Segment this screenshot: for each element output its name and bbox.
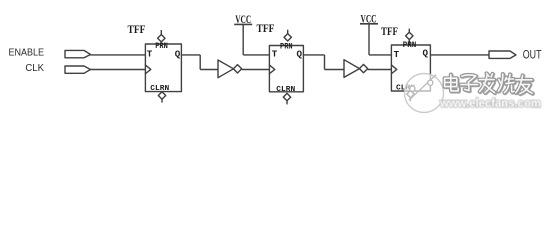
svg-text:CLK: CLK (25, 63, 44, 74)
power VCC bar (234, 23, 252, 25)
U5 CLRN stub (410, 98, 412, 101)
svg-text:www.elecfans.com: www.elecfans.com (439, 96, 541, 110)
svg-text:TFF: TFF (381, 24, 398, 38)
power VCC bar (360, 23, 378, 25)
svg-text:ENABLE: ENABLE (9, 48, 45, 59)
wire Q of U3 (303, 54, 325, 56)
T flip-flop U5 body (391, 45, 430, 91)
wire CLK to clock of U1 (91, 69, 146, 71)
svg-text:TFF: TFF (257, 21, 275, 35)
U5 PRN diamond (406, 32, 413, 39)
inverter U4 triangle (344, 60, 360, 78)
output pin OUT (489, 51, 516, 58)
U3 CLRN diamond (283, 93, 290, 100)
U1 clock triangle (145, 65, 151, 74)
U5 PRN lower stub (408, 40, 410, 45)
U5 PRN stub (408, 29, 410, 33)
svg-text:PRN: PRN (155, 41, 168, 51)
inverter U4 bubble (359, 64, 367, 72)
U3 PRN diamond (284, 34, 291, 41)
wire vertical jog to inverter U2 (199, 55, 201, 70)
wire vertical jog to inverter U4 (324, 55, 326, 70)
wire U2 out to clock of U3 (242, 69, 269, 71)
inverter U2 triangle (218, 60, 234, 78)
watermark logo ring 2 (428, 80, 433, 85)
U5 clock triangle (391, 65, 397, 74)
watermark chinese text dian zi fa shao you (445, 73, 533, 94)
svg-text:CLRN: CLRN (150, 85, 169, 93)
U5 CLRN diamond (407, 90, 414, 97)
U3 CLRN stub (286, 101, 288, 104)
wire Q of U1 (181, 54, 200, 56)
inverter U2 bubble (233, 65, 241, 73)
svg-text:Q: Q (422, 47, 428, 58)
T flip-flop U3 body (269, 46, 303, 92)
wire U4 out to clock of U5 (368, 69, 391, 71)
wire Q of U5 to OUT (430, 54, 489, 56)
svg-text:OUT: OUT (523, 48, 542, 61)
U3 PRN stub (287, 30, 289, 34)
input pin ENABLE (65, 50, 91, 57)
T flip-flop U1 body (145, 44, 181, 92)
svg-text:T: T (147, 48, 153, 59)
U1 CLRN stub (161, 99, 163, 102)
svg-text:TFF: TFF (128, 22, 146, 36)
wire VCC to T of U5 (369, 54, 391, 56)
U1 PRN stub (160, 30, 162, 34)
svg-text:Q: Q (296, 49, 302, 60)
svg-text:CLRN: CLRN (276, 86, 295, 94)
U3 clock triangle (269, 65, 275, 74)
wire ENABLE to T of U1 (91, 54, 146, 56)
svg-text:PRN: PRN (403, 40, 417, 50)
wire VCC down (242, 24, 244, 55)
wire into inverter U2 (200, 69, 218, 71)
svg-text:T: T (272, 49, 278, 60)
wire VCC to T of U3 (243, 54, 269, 56)
input pin CLK (65, 66, 91, 73)
watermark logo slash (409, 75, 436, 101)
wire VCC down (368, 24, 370, 55)
svg-text:T: T (394, 49, 400, 60)
U1 CLRN diamond (158, 92, 165, 99)
svg-text:PRN: PRN (280, 42, 293, 52)
U1 PRN diamond (158, 35, 165, 42)
watermark logo circle (405, 74, 444, 113)
watermark logo ring 1 (410, 86, 415, 91)
wire into inverter U4 (325, 69, 345, 71)
svg-text:Q: Q (175, 48, 181, 59)
